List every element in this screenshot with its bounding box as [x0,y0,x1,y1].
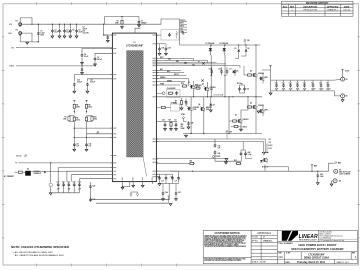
resistor R7 side branch [69,116,74,122]
transistor Q5 [252,73,257,78]
capacitor C10 column [74,75,112,82]
svg-text:CSN: CSN [268,142,271,144]
svg-text:U2: U2 [27,169,29,171]
svg-text:RJK0651: RJK0651 [210,87,216,89]
transistor Q6 [252,105,257,110]
transistor Q7 [237,119,242,124]
svg-text:C2: C2 [54,30,56,32]
svg-text:C1: C1 [40,31,42,33]
svg-text:C30: C30 [275,82,278,84]
Linear Technology logo [282,231,318,242]
resistor R23 gate [247,106,253,108]
svg-text:DPB: DPB [196,87,199,89]
capacitor C28 [187,122,190,126]
svg-text:C16: C16 [218,69,221,71]
turret E8 GND [333,179,337,183]
svg-text:SW2: SW2 [184,63,187,65]
svg-text:APPROVALS: APPROVALS [257,232,271,235]
IC U1 body [112,33,156,182]
svg-text:C37: C37 [326,82,329,84]
test point TP4 BAT [329,163,334,171]
sense cluster caps [238,87,241,91]
svg-text:TECHNOLOGY: TECHNOLOGY [299,240,318,242]
node VOUT flag [269,65,272,67]
resistor R5 [73,100,75,102]
svg-text:SHDN: SHDN [9,66,15,68]
address [320,230,345,242]
svg-text:10uF: 10uF [296,88,300,90]
svg-text:R13 3m: R13 3m [237,83,243,85]
svg-text:R27: R27 [169,120,172,122]
svg-text:BST1: BST1 [180,23,184,25]
svg-text:C19: C19 [247,89,250,91]
capacitor C4 [69,29,72,33]
transistor Q1 [190,84,195,89]
diode D6 to ground [81,65,82,66]
svg-text:REV: REV [352,253,355,255]
svg-text:TG2: TG2 [192,64,195,66]
svg-text:PGND: PGND [160,84,164,86]
svg-text:R26 2k: R26 2k [243,126,248,128]
svg-text:DPB: DPB [206,109,209,111]
IC U1 left pin names [110,35,116,180]
capacitor row C20-C24 [57,183,60,187]
svg-text:C50: C50 [158,177,161,179]
RC snubber box [161,30,179,41]
svg-text:R10: R10 [94,117,97,119]
svg-text:C6: C6 [83,27,85,29]
svg-text:RT 53.6k: RT 53.6k [171,103,177,105]
svg-text:C3: C3 [66,30,68,32]
capacitor C1 [37,32,40,36]
svg-text:INTVCC: INTVCC [174,74,179,76]
svg-text:Q7: Q7 [235,115,237,117]
svg-text:150uF: 150uF [83,29,87,31]
svg-text:0.1uF: 0.1uF [84,56,88,58]
turret E6 GND [334,91,340,96]
node annotation arrow [44,171,46,173]
svg-text:150uF: 150uF [311,88,315,90]
svg-text:SENSE+: SENSE+ [160,77,166,79]
svg-text:LTC4020EUHF: LTC4020EUHF [126,44,144,47]
net labels [268,139,273,150]
transistor Q5B [259,76,264,81]
svg-text:C38: C38 [161,48,164,50]
svg-text:SCALE = NONE: SCALE = NONE [252,260,267,263]
svg-text:BST1: BST1 [160,57,164,59]
wire diode rail [180,44,261,46]
wire row bottom rail [51,192,80,194]
capacitor C42 pair [240,152,243,156]
svg-text:100k: 100k [63,119,67,121]
oscillator RT network cluster [156,92,162,94]
svg-text:E5: E5 [346,79,348,81]
oscillator U2 [25,171,31,176]
svg-text:10uF: 10uF [54,32,58,34]
svg-text:C31: C31 [174,120,177,122]
resistor R20 gate [182,85,188,87]
wire with resistor R25 [156,163,195,165]
svg-text:TIMEROUT: TIMEROUT [33,173,41,175]
capacitor C38 INTVCC [156,44,166,47]
svg-text:MODE: MODE [16,156,22,158]
svg-text:10uF: 10uF [320,176,324,178]
capacitor C5b [58,29,61,33]
svg-text:E6: E6 [346,96,348,98]
svg-text:C11: C11 [90,80,93,82]
capacitor C3 [63,29,66,33]
svg-text:C13: C13 [76,143,79,145]
svg-text:E2: E2 [16,30,18,32]
svg-text:10uF: 10uF [289,88,293,90]
fuse X1 [202,62,204,64]
junction dots rows [262,152,263,153]
resistor R21 gate [195,87,201,89]
resistor RT2 network [156,107,160,109]
svg-text:C15: C15 [209,69,212,71]
svg-text:C5: C5 [79,30,81,32]
svg-text:CSP: CSP [268,139,271,141]
wire long rail B [16,65,96,67]
svg-text:L1 10uH 15A: L1 10uH 15A [213,93,224,96]
ground [26,42,29,44]
svg-text:R20: R20 [181,83,184,85]
svg-text:C36: C36 [319,82,322,84]
svg-text:Q5: Q5 [250,71,252,73]
border zone ticks right [357,37,360,238]
node VIN flag divider B [85,100,88,102]
transistor Q8 [263,158,268,163]
resistor R26 cluster [233,125,239,127]
svg-text:R8: R8 [88,105,90,107]
svg-text:SGND: SGND [268,148,272,150]
svg-text:PLLIN/MODE: PLLIN/MODE [167,88,176,90]
svg-text:C29: C29 [162,120,165,122]
svg-text:NOTE: UNLESS OTHERWISE SPECIFI: NOTE: UNLESS OTHERWISE SPECIFIED [11,245,70,249]
resistor R10 side branch [87,116,93,122]
svg-text:LT: LT [263,237,265,239]
svg-text:RJK0651: RJK0651 [193,107,199,109]
svg-text:GND: GND [8,33,13,35]
svg-text:100k: 100k [76,119,80,121]
svg-text:D3: D3 [235,48,237,50]
capacitor C25 pair [89,185,92,189]
capacitor C18 [185,100,188,104]
svg-text:E8: E8 [339,181,341,183]
svg-text:CSOUT: CSOUT [216,156,221,158]
svg-text:F1: F1 [198,62,200,64]
border zone ticks bottom [37,264,177,267]
wire staircase bus to IC [58,168,112,182]
svg-text:CHARLES L.: CHARLES L. [327,8,339,11]
svg-text:DEMO CIRCUIT 2134A: DEMO CIRCUIT 2134A [304,257,330,260]
resistor R24 gate [232,120,238,122]
capacitor C14 bottom col B [86,134,88,143]
svg-text:R1: R1 [116,21,118,23]
svg-text:C28: C28 [191,123,194,125]
svg-text:RJK0651: RJK0651 [258,73,264,75]
resistor R2 VIN divider top [103,24,104,25]
wire divider A to IC [74,127,112,129]
wire bottom stage rail [183,133,262,135]
svg-text:RJK0651: RJK0651 [196,85,202,87]
svg-text:TG2: TG2 [180,31,183,33]
capacitor C9 on pin [95,53,112,56]
svg-text:C8: C8 [84,54,86,56]
test point TP5 [96,131,99,133]
wire CSP rail [156,139,265,153]
node labels PGND block [181,124,185,130]
wire cap bank rails [271,80,335,91]
svg-text:RJK0651: RJK0651 [258,105,264,107]
capacitor C5 [75,29,78,33]
svg-text:3-27-14: 3-27-14 [343,9,351,11]
capacitor C11 column [87,79,112,81]
transistor Q2 [204,86,209,91]
ground on sense wire [225,160,227,163]
wire SW1-SW2 inductor rail [156,96,262,98]
svg-text:ALL CAPACITORS ARE IN MICROFAR: ALL CAPACITORS ARE IN MICROFARADS, 0402 [15,254,65,257]
svg-text:0.1uF: 0.1uF [248,154,252,156]
svg-text:SENSE-: SENSE- [167,80,173,82]
svg-text:C35: C35 [311,82,314,84]
node VOUT tp flag [341,69,344,71]
test point TP3 [225,130,228,132]
svg-text:1uF: 1uF [175,180,178,182]
node stub column INTVCC etc [181,22,188,33]
gate drive wires bottom [156,71,188,87]
resistor R1 [121,17,123,20]
svg-text:OS-CON: OS-CON [83,33,89,35]
fuse X2 [201,79,203,81]
capacitor C46 chain [163,184,176,192]
wire long rail A [16,47,112,49]
svg-text:C31: C31 [282,82,285,84]
wire SW drops [211,55,225,97]
svg-text:DATE: DATE [344,5,350,8]
wire top pin net [105,17,141,34]
svg-text:C10: C10 [77,80,80,82]
svg-text:1uF: 1uF [162,180,165,182]
capacitor C2 [51,29,54,33]
svg-text:DPB: DPB [210,89,213,91]
test point TP2 [243,39,246,41]
svg-text:C25: C25 [92,186,95,188]
border zone ticks top [37,2,317,5]
node VOUT flag divider A [73,100,76,102]
svg-text:DPB: DPB [265,77,268,79]
svg-text:10uF: 10uF [282,88,286,90]
svg-text:TG1: TG1 [180,28,183,30]
svg-text:SIZE: SIZE [278,253,281,255]
ground bank [269,93,272,95]
svg-text:DESCRIPTION: DESCRIPTION [303,6,317,8]
svg-text:100k: 100k [94,119,98,121]
svg-text:10uF: 10uF [303,88,307,90]
svg-text:ECO: ECO [283,6,288,8]
svg-text:PCB DES.: PCB DES. [252,237,259,239]
svg-text:Q8: Q8 [263,154,265,156]
ground pin 1 [123,182,130,188]
wire CSOUT with test point [156,158,226,160]
resistor R22 gate [247,74,253,76]
svg-text:Thursday, March 27, 2014: Thursday, March 27, 2014 [297,261,326,264]
node BAT flag [311,165,314,167]
svg-text:150uF: 150uF [319,88,323,90]
svg-text:15k: 15k [182,34,185,36]
resistor R6 [73,110,75,114]
svg-text:Fax: (408)434-0507: Fax: (408)434-0507 [320,237,332,239]
svg-text:C17: C17 [229,69,232,71]
svg-text:RT: RT [175,101,177,103]
capacitor C6b electrolytic label [83,27,89,35]
svg-text:E7: E7 [339,170,341,172]
svg-text:ITH: ITH [181,126,183,128]
svg-text:LTC6990: LTC6990 [33,171,39,173]
svg-text:R6: R6 [76,117,78,119]
capacitor C45 [317,171,319,173]
svg-text:R25: R25 [190,160,193,162]
svg-text:HIGH POWER BUCK / BOOST: HIGH POWER BUCK / BOOST [299,243,337,247]
svg-text:63V: 63V [83,31,86,33]
svg-text:VIN: VIN [247,40,250,42]
resistor R15 [236,162,242,164]
svg-text:C33: C33 [296,82,299,84]
svg-text:BST2: BST2 [180,26,184,28]
svg-text:MULTI-CHEMISTRY BATTERY CHARGE: MULTI-CHEMISTRY BATTERY CHARGER [291,247,343,251]
svg-text:REV: REV [290,6,295,8]
svg-text:BG2: BG2 [167,71,170,73]
wire VIN loop [20,18,32,24]
svg-text:TG1: TG1 [168,59,171,61]
svg-text:10uF: 10uF [275,88,279,90]
svg-text:VFB: VFB [181,124,184,126]
transistor Q3 [187,106,192,111]
boost capacitors row [211,70,214,74]
turret E1 VIN [19,23,22,27]
wire VIN rail [22,19,180,45]
turret E7 BAT+ [334,169,338,173]
resistor R12 RT [181,98,183,100]
svg-text:D5: D5 [237,71,239,73]
svg-text:RJK0651: RJK0651 [206,107,212,109]
wire E2 to gnd rail [20,33,38,42]
capacitor C6 [104,34,108,36]
capacitor C40 stack [214,139,216,143]
svg-text:APPROVED: APPROVED [327,5,339,8]
ground pin 2 [132,182,134,186]
jumper JP1 [131,192,138,193]
wire CSN rail [156,142,267,153]
IC U1 right pin names [152,35,158,178]
svg-text:C26: C26 [92,199,95,201]
svg-text:SHEET 1 OF 1: SHEET 1 OF 1 [337,262,350,264]
svg-text:C7: C7 [141,21,143,23]
svg-text:REVISION HISTORY: REVISION HISTORY [306,2,329,5]
wire BAT rail [170,170,329,172]
ground pin 3 [142,182,144,186]
svg-text:DPB: DPB [193,109,196,111]
resistor R9 [86,110,88,114]
bus row labels [57,181,81,191]
border zone ticks left [2,37,5,238]
svg-text:2.2uF: 2.2uF [40,33,44,35]
svg-text:Q6: Q6 [250,103,252,105]
svg-text:1000pF: 1000pF [141,23,147,25]
wire drop [50,163,52,182]
output capacitor bank [275,84,329,88]
wire mid vertical [228,97,230,134]
turret E5 VOUT [334,78,340,81]
transistor Q4 [200,107,205,112]
svg-text:R7: R7 [64,117,66,119]
svg-text:SGND: SGND [181,128,185,130]
diode D8 [210,104,213,106]
capacitor C13 bottom col A [73,137,75,142]
svg-text:150uF: 150uF [326,88,330,90]
svg-text:N/A: N/A [279,255,284,259]
resistor R8 [86,100,88,102]
capacitor C7 [138,17,140,20]
wire routed under IC W1 [91,183,170,200]
transistor Q6B [259,109,264,114]
svg-text:C9: C9 [97,57,99,59]
wire U2 out [31,170,67,172]
svg-text:DPB: DPB [265,110,268,112]
svg-text:1uF: 1uF [89,145,92,147]
svg-text:1. ALL RESISTORS ARE IN OHMS,: 1. ALL RESISTORS ARE IN OHMS, 0402 [13,251,54,254]
svg-text:1uF: 1uF [218,148,221,150]
svg-text:D8: D8 [213,104,215,106]
svg-text:CUSTOMER NOTICE: CUSTOMER NOTICE [215,231,241,235]
LED D7 [50,182,52,183]
svg-text:PRODUCTION: PRODUCTION [303,9,317,11]
turret E2 GND [19,32,22,36]
svg-text:E1: E1 [16,20,18,22]
svg-text:RJK0651: RJK0651 [243,119,249,121]
svg-text:R15: R15 [234,160,237,162]
diode D5 [232,71,235,73]
svg-text:VOUT: VOUT [345,71,349,73]
ITH compensation network [156,121,177,122]
svg-text:BG1: BG1 [160,69,163,71]
svg-text:SW1: SW1 [176,61,179,63]
svg-text:C32: C32 [289,82,292,84]
svg-text:Q1: Q1 [188,82,190,84]
svg-text:INTVCC: INTVCC [180,20,185,22]
svg-text:1uF: 1uF [76,145,79,147]
gate drive wires top [156,58,240,68]
ground stage rail [185,134,187,136]
svg-text:C39: C39 [168,48,171,50]
pin 4 stub [151,182,153,184]
svg-text:C51: C51 [171,177,174,179]
capacitor C8 on pin [82,49,112,54]
svg-text:Q2: Q2 [202,84,204,86]
wire routed under IC W2 [96,196,168,204]
svg-text:IC NO.: IC NO. [286,253,291,255]
svg-text:R5: R5 [76,105,78,107]
svg-text:CSP: CSP [229,131,232,133]
IC U1 bottom pin names [122,177,153,180]
